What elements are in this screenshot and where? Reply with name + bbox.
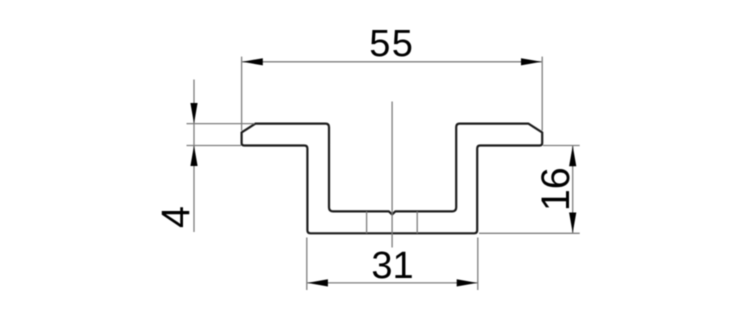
svg-text:4: 4 (154, 206, 198, 228)
dimension 55: dimension line (242, 61, 543, 63)
web tick line left (366, 211, 368, 233)
dimension 55: arrow left (242, 58, 262, 65)
dimension 31: arrow right (457, 279, 478, 286)
svg-text:55: 55 (369, 23, 414, 65)
dimension 55: arrow right (521, 58, 542, 65)
dimension 4: arrow down (190, 103, 197, 124)
dimension 16: arrow up (569, 146, 576, 167)
dimension 55: extension line left (241, 57, 243, 131)
dimension 4: extension line top (187, 123, 255, 125)
dimension 31: extension line left (306, 238, 308, 291)
dimension 16: extension line bottom (479, 232, 580, 234)
dimension 31: dimension line (307, 282, 478, 284)
dimension 4: extension line bottom (187, 145, 242, 147)
dimension 4: dimension line (193, 80, 195, 233)
web tick line right (416, 211, 418, 233)
profile outline (hat channel cross-section) (242, 124, 543, 234)
dimension 16: dimension line (572, 146, 574, 234)
dimension 31: extension line right (477, 238, 479, 291)
centerline (391, 102, 393, 248)
dimension 31: arrow left (307, 279, 328, 286)
dimension 16: extension line top (543, 145, 580, 147)
dimension 16: arrow down (569, 213, 576, 234)
svg-text:16: 16 (534, 167, 578, 211)
dimension 4: arrow up (190, 146, 197, 167)
dimension 55: extension line right (541, 57, 543, 131)
svg-text:31: 31 (371, 245, 413, 287)
